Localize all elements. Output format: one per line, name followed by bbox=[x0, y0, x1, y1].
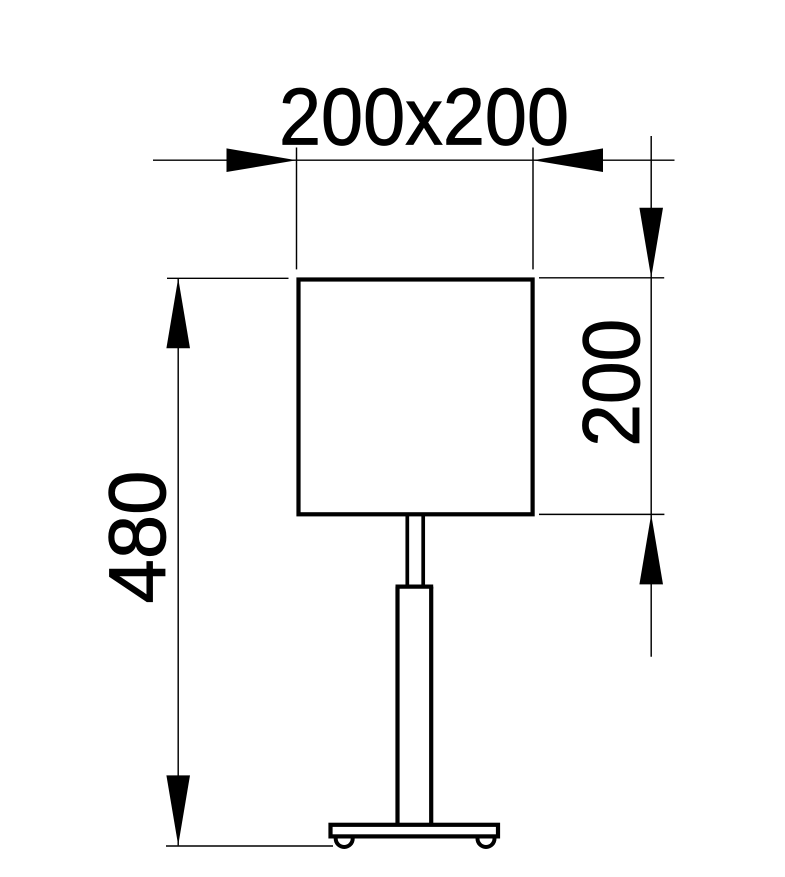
right foot bbox=[478, 839, 495, 848]
svg-text:200x200: 200x200 bbox=[279, 73, 569, 163]
top dimension line bbox=[153, 159, 675, 161]
left dimension top extension line bbox=[167, 277, 289, 279]
top dimension right extension line bbox=[532, 148, 534, 270]
right dimension upper arrow bbox=[639, 208, 663, 278]
left dimension bottom extension line bbox=[166, 845, 333, 847]
top dimension left extension line bbox=[296, 148, 298, 270]
lower wide tube right wall bbox=[429, 587, 433, 824]
right dimension lower arrow bbox=[639, 514, 663, 584]
right dimension line bbox=[650, 136, 652, 657]
right dimension bottom extension line bbox=[539, 513, 664, 515]
lower wide tube left wall bbox=[395, 587, 399, 824]
left foot bbox=[336, 839, 353, 848]
base plate bbox=[331, 825, 499, 837]
svg-text:200: 200 bbox=[567, 319, 657, 447]
upper thin tube right wall bbox=[421, 515, 425, 586]
left dimension bottom arrow bbox=[166, 775, 190, 845]
left dimension line bbox=[177, 278, 179, 845]
lamp shade outline bbox=[299, 280, 533, 515]
upper thin tube left wall bbox=[405, 515, 409, 586]
left dimension top arrow bbox=[166, 278, 190, 348]
right dimension top extension line bbox=[539, 277, 664, 279]
svg-text:480: 480 bbox=[93, 471, 183, 604]
top dimension right arrow bbox=[533, 148, 603, 172]
top dimension left arrow bbox=[227, 148, 297, 172]
lower wide tube top cap bbox=[396, 584, 434, 588]
